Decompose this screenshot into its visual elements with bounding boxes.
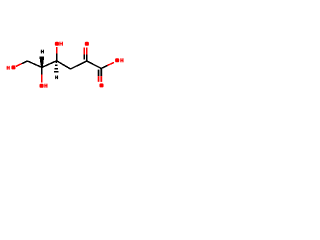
- double bond C2=O inner line black half (lower): [83, 54, 85, 59]
- label OH (right, carboxyl): H: [120, 58, 123, 62]
- carbon skeleton C6-C5-C4-C3-C2-C1: [27, 61, 101, 69]
- double bond C1=O main line red half (lower): [100, 76, 102, 82]
- bond O(left HO) to C6, red half: [16, 64, 22, 67]
- double bond C2=O inner line red half (upper): [83, 48, 85, 55]
- bond C4 up to O(H), black half: [56, 54, 58, 61]
- double bond C1=O inner line red half (lower): [98, 76, 100, 82]
- bond C1 to O(H right), red half: [108, 62, 114, 65]
- label OH (top, on C4): H: [59, 42, 63, 46]
- dashed (hash) bond C4 to H (down): [54, 62, 59, 71]
- label H (stereo H on C4, below dashes): [55, 76, 58, 80]
- bond C4 up to O(H), red half: [56, 47, 58, 54]
- label OH (right, carboxyl): O: [115, 58, 119, 62]
- double bond C1=O main line black half (upper): [100, 68, 102, 76]
- label OH (top, on C4): O: [55, 42, 59, 46]
- wedge bond C5 to H (bold wedge up): [39, 56, 44, 67]
- double bond C1=O inner line black half (upper): [98, 70, 100, 77]
- label OH (bottom, on C5): O: [40, 84, 44, 88]
- label HO (left): O: [11, 65, 15, 69]
- bond C1 to O(H right), black half: [101, 65, 107, 68]
- double bond C2=O main line black half (lower): [86, 54, 88, 61]
- label H (stereo H on C5, above wedge): [41, 50, 44, 54]
- bond C5 down to O(H), black half: [41, 67, 43, 74]
- label O (ketone on C2): [85, 42, 89, 46]
- label OH (bottom, on C5): H: [44, 84, 47, 88]
- label HO (left): H: [7, 66, 10, 70]
- bond C5 down to O(H), red half: [41, 75, 43, 83]
- bond O(left HO) to C6, black half: [22, 61, 28, 64]
- double bond C2=O main line red half (upper): [86, 47, 88, 54]
- label O (carboxyl double-bond O on C1): [99, 83, 103, 87]
